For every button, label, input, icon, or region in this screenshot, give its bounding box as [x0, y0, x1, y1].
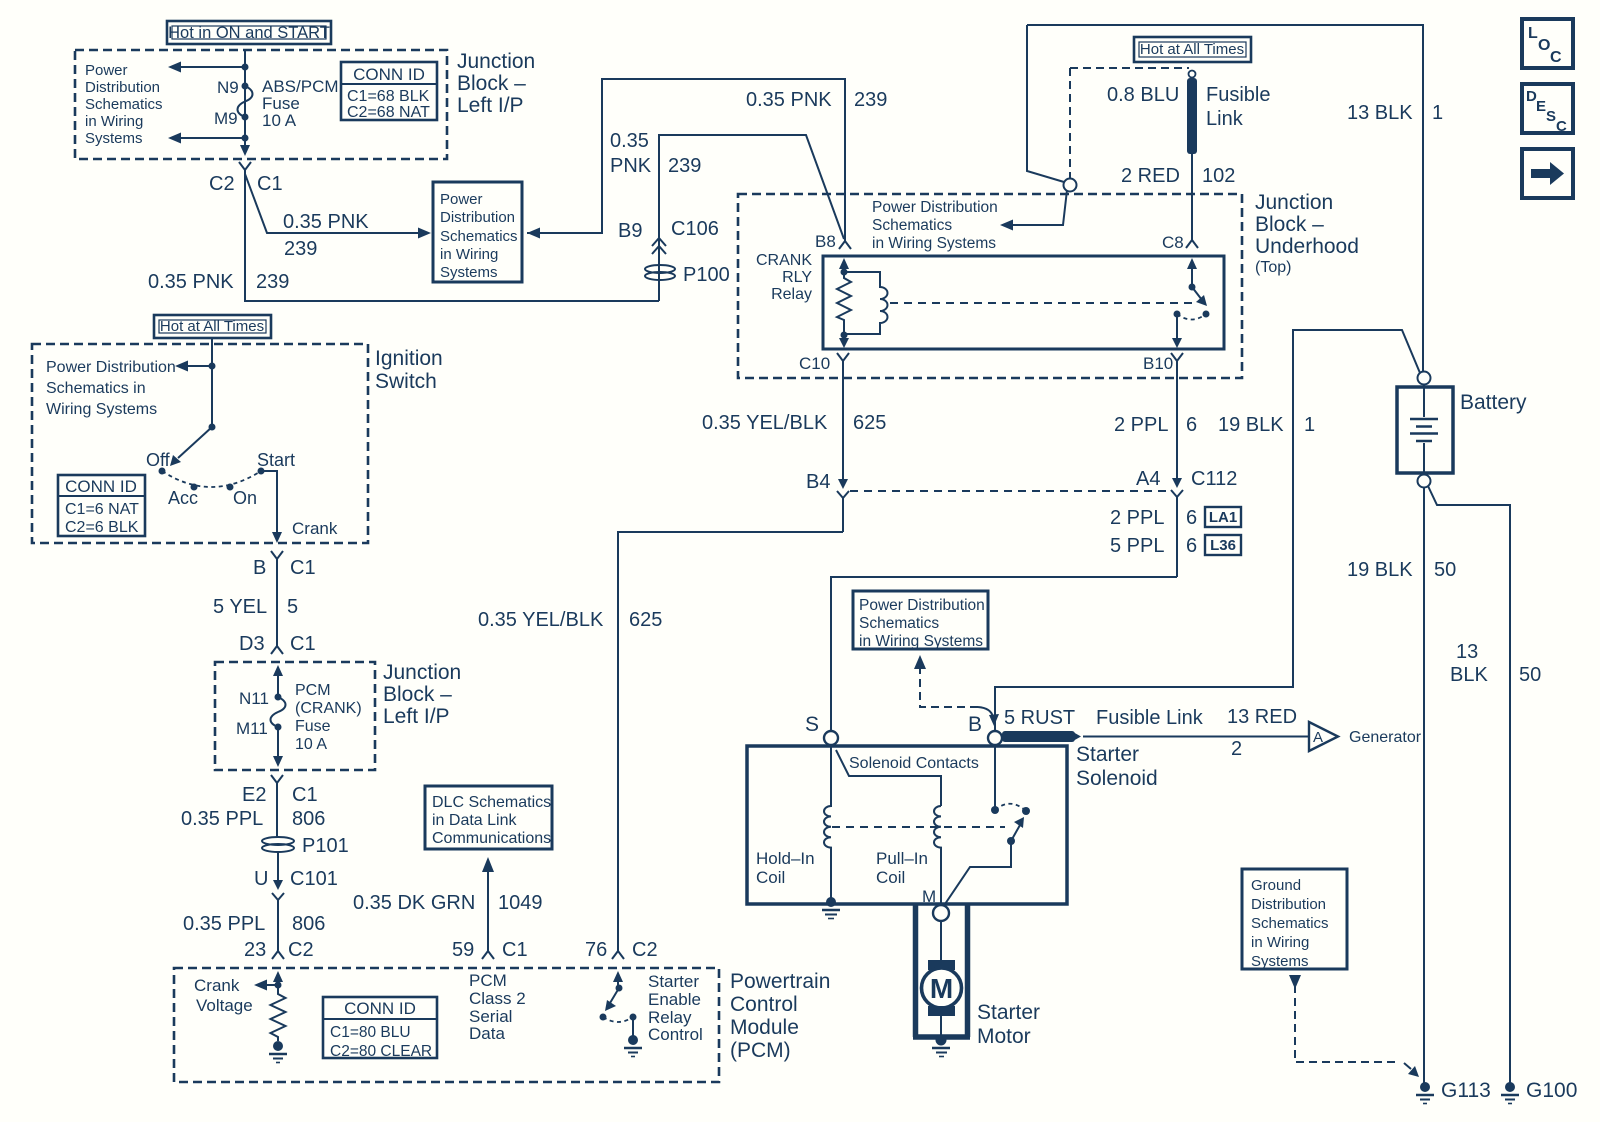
svg-text:Hot at All Times: Hot at All Times [160, 318, 264, 335]
label 0.35 PNK 239 (vertical run) [148, 271, 289, 293]
svg-text:Fusible Link: Fusible Link [1096, 707, 1204, 729]
reference text: Power Distribution Schematics in Wiring Systems (ignition) [46, 359, 176, 418]
label C10 [799, 354, 830, 373]
svg-text:C1: C1 [292, 784, 318, 806]
terminal circle B [988, 731, 1002, 745]
starter motor housing [913, 905, 970, 1037]
wire B up to battery [995, 330, 1420, 731]
label Off [146, 450, 171, 470]
CONN ID box (C1=6 NAT, C2=6 BLK) [58, 475, 145, 536]
svg-text:E2: E2 [242, 784, 266, 806]
svg-text:Link: Link [1206, 108, 1244, 130]
svg-text:0.8 BLU: 0.8 BLU [1107, 84, 1179, 106]
svg-text:Distribution: Distribution [440, 209, 515, 226]
svg-text:Relay: Relay [771, 286, 812, 303]
svg-text:13 BLK: 13 BLK [1347, 102, 1413, 124]
wire 2 RED 102 into C8 [1191, 154, 1193, 236]
label 2 PPL 6 LA1 [1110, 507, 1197, 529]
svg-text:Control: Control [648, 1025, 703, 1044]
svg-text:PCM: PCM [469, 971, 507, 990]
label A4 [1136, 468, 1160, 490]
svg-text:Left I/P: Left I/P [457, 94, 524, 117]
svg-text:C2=80 CLEAR: C2=80 CLEAR [330, 1043, 432, 1060]
svg-text:G100: G100 [1526, 1079, 1577, 1102]
connector E2/C1 Y symbol [271, 775, 283, 837]
node: solenoid blade pivot dot [1007, 837, 1015, 845]
terminal circle S [824, 731, 838, 745]
label G100 [1526, 1079, 1577, 1102]
svg-text:M: M [922, 887, 936, 906]
ground (hold-in coil) [822, 897, 840, 919]
connector B4 arrow + Y [837, 479, 849, 532]
label 0.35 YEL/BLK 625 (lower) [478, 609, 662, 631]
svg-text:13 RED: 13 RED [1227, 706, 1297, 728]
svg-text:Power Distribution: Power Distribution [46, 359, 176, 376]
svg-text:B8: B8 [815, 232, 836, 251]
wire up from P100 to diagonal into B8 [659, 135, 844, 301]
svg-text:M9: M9 [214, 109, 238, 128]
connector B9/C106 chevrons [652, 238, 666, 254]
svg-text:BLK: BLK [1450, 664, 1488, 686]
label: Junction Block - Underhood (Top) [1255, 191, 1359, 276]
svg-text:C2: C2 [288, 939, 314, 961]
wire arrow left lower [168, 133, 245, 144]
label C112 [1191, 468, 1237, 490]
svg-text:C1=80 BLU: C1=80 BLU [330, 1024, 411, 1041]
grommet P101 [262, 835, 349, 857]
label 19 BLK 1 (battery feed wire) [1218, 414, 1315, 436]
label 5 PPL 6 L36 [1110, 535, 1197, 557]
svg-text:D3: D3 [239, 633, 265, 655]
svg-text:19 BLK: 19 BLK [1347, 559, 1413, 581]
svg-text:Starter: Starter [648, 972, 699, 991]
svg-text:76: 76 [585, 939, 607, 961]
dashed travel arc (solenoid switch) [995, 804, 1026, 811]
svg-text:2 PPL: 2 PPL [1114, 414, 1168, 436]
label Battery [1460, 391, 1527, 414]
node N11 [239, 689, 282, 708]
arrow up inside PCM (starter enable) [613, 971, 623, 988]
ground (starter enable) [624, 1035, 642, 1057]
reference text: Power Distribution Schematics in Wiring Systems (JB left I/P) [85, 62, 163, 147]
node: ignition pivot dot [209, 424, 216, 431]
reference box: DLC Schematics in Data Link Communications [425, 786, 552, 849]
svg-text:Power Distribution: Power Distribution [859, 597, 985, 614]
wire B4 down-left to PCM 76/C2 [618, 532, 843, 943]
pull-in coil [934, 806, 941, 905]
label Pull-In Coil [876, 849, 928, 887]
node: relay contact dot right [1203, 311, 1210, 318]
svg-text:Powertrain: Powertrain [730, 970, 830, 993]
resistor (relay) [837, 272, 851, 333]
resistor (crank voltage) [271, 985, 286, 1041]
wire M terminal into motor [940, 921, 942, 962]
svg-text:C: C [1556, 118, 1567, 135]
connector A4 arrow + Y [1171, 478, 1183, 577]
label G113 [1441, 1079, 1491, 1102]
label: Junction Block - Left I/P (2) [383, 661, 461, 728]
svg-text:50: 50 [1519, 664, 1541, 686]
svg-text:Block –: Block – [383, 683, 452, 706]
label 0.35 PNK 239 (branch) [283, 211, 369, 260]
node: relay contact dot left [1174, 311, 1181, 318]
svg-text:Junction: Junction [383, 661, 461, 684]
svg-text:0.35 PNK: 0.35 PNK [148, 271, 234, 293]
svg-text:Power: Power [440, 191, 483, 208]
svg-text:1: 1 [1432, 102, 1443, 124]
svg-text:M: M [930, 973, 953, 1004]
svg-text:L36: L36 [1210, 537, 1236, 554]
svg-text:PNK: PNK [610, 155, 652, 177]
label B9 [618, 220, 642, 242]
ground (crank voltage) [269, 1041, 287, 1063]
svg-text:RLY: RLY [782, 269, 812, 286]
label M [922, 887, 936, 906]
icon DESC [1522, 84, 1573, 135]
svg-text:S: S [805, 713, 819, 736]
label 0.8 BLU [1107, 84, 1179, 106]
svg-text:C1=68 BLK: C1=68 BLK [347, 88, 430, 105]
wire: bus into fuse ABS/PCM [244, 50, 246, 141]
label Start [257, 450, 295, 470]
ignition blade arrow to Off [170, 427, 212, 466]
svg-text:239: 239 [854, 89, 887, 111]
svg-text:Junction: Junction [1255, 191, 1333, 214]
svg-text:0.35 PNK: 0.35 PNK [746, 89, 832, 111]
dashed actuation line (relay) [890, 302, 1194, 304]
svg-text:Ground: Ground [1251, 877, 1301, 894]
label S [805, 713, 819, 736]
svg-text:C10: C10 [799, 354, 830, 373]
label B10 [1143, 354, 1173, 373]
svg-text:in Wiring: in Wiring [1251, 934, 1309, 951]
wire A4 down to S terminal [831, 577, 1177, 731]
label C8 [1162, 233, 1184, 252]
svg-text:CONN ID: CONN ID [353, 65, 425, 84]
wire 13 RED 2 to generator [1083, 736, 1308, 738]
junction block underhood dashed box [738, 194, 1242, 378]
svg-text:A: A [1313, 729, 1323, 746]
label 0.35 PNK 239 (P100 run) [610, 130, 701, 177]
svg-text:Fuse: Fuse [295, 718, 331, 735]
label B4 [806, 471, 830, 493]
reference box: Power Distribution Schematics in Wiring Systems #1 [433, 182, 522, 282]
svg-text:Coil: Coil [876, 868, 905, 887]
svg-text:Communications: Communications [432, 830, 551, 847]
svg-text:6: 6 [1186, 414, 1197, 436]
svg-text:0.35 YEL/BLK: 0.35 YEL/BLK [478, 609, 604, 631]
reference box: Power Distribution Schematics in Wiring Systems #3 [853, 591, 988, 650]
label U C101 [254, 868, 338, 890]
svg-text:Hot at All Times: Hot at All Times [1140, 41, 1244, 58]
connector 23/C2 inverted-Y [272, 944, 284, 959]
battery cell plates [1410, 385, 1438, 474]
svg-text:1049: 1049 [498, 892, 543, 914]
svg-text:Off: Off [146, 450, 171, 470]
label B (ignition out) [253, 557, 266, 579]
svg-text:Data: Data [469, 1024, 505, 1043]
node: contact Off [159, 468, 166, 475]
svg-text:in Data Link: in Data Link [432, 812, 517, 829]
connector D3 inverted-Y [271, 646, 283, 654]
label On [233, 488, 257, 508]
svg-text:239: 239 [668, 155, 701, 177]
svg-text:C8: C8 [1162, 233, 1184, 252]
svg-text:Class 2: Class 2 [469, 989, 526, 1008]
icon LOC [1522, 19, 1573, 68]
label B [968, 713, 982, 736]
svg-text:P101: P101 [302, 835, 349, 857]
label box "Hot in ON and START" [167, 21, 331, 44]
ground G100 [1501, 1082, 1519, 1104]
label 0.35 DK GRN 1049 [353, 892, 543, 914]
node: crank voltage junction dot [275, 982, 282, 989]
label Fusible Link [1096, 707, 1204, 729]
label C1 [257, 173, 283, 195]
tag box LA1 [1205, 507, 1241, 527]
wire S to pull-in coil [836, 750, 941, 806]
label: Junction Block - Left I/P [457, 50, 535, 117]
svg-text:50: 50 [1434, 559, 1456, 581]
label Crank Voltage [194, 976, 253, 1015]
fuse ABS/PCM 10A [238, 77, 339, 130]
svg-text:Systems: Systems [85, 130, 143, 147]
connector 59/C1 inverted-Y [482, 944, 494, 959]
svg-text:(PCM): (PCM) [730, 1039, 791, 1062]
svg-text:E: E [1536, 98, 1546, 115]
svg-text:Solenoid Contacts: Solenoid Contacts [849, 755, 979, 772]
svg-text:Schematics: Schematics [1251, 915, 1329, 932]
svg-text:C2=68 NAT: C2=68 NAT [347, 104, 430, 121]
label 13 BLK 1 [1347, 102, 1443, 124]
svg-text:10 A: 10 A [295, 736, 327, 753]
label 5 RUST [1004, 707, 1075, 729]
svg-text:C112: C112 [1191, 468, 1237, 490]
inductor coil (relay) [844, 272, 888, 334]
node: solenoid contact dot left [991, 806, 999, 814]
battery box [1397, 387, 1453, 473]
svg-text:Battery: Battery [1460, 391, 1527, 414]
wire arrow up into DLC box [482, 857, 494, 944]
reference box: Ground Distribution Schematics in Wiring Systems [1242, 869, 1347, 970]
wire arrow left Crank Voltage [254, 980, 278, 991]
svg-text:5 RUST: 5 RUST [1004, 707, 1075, 729]
connector C10 Y symbol [837, 353, 849, 368]
label Solenoid Contacts [849, 755, 979, 772]
svg-text:Crank: Crank [194, 976, 240, 995]
svg-text:LA1: LA1 [1209, 509, 1237, 526]
node N9 [217, 78, 249, 97]
svg-text:C1=6 NAT: C1=6 NAT [65, 501, 139, 518]
PCM dashed box [174, 968, 719, 1082]
svg-text:19 BLK: 19 BLK [1218, 414, 1284, 436]
fuse PCM (CRANK) 10A [271, 682, 362, 753]
wire Start to Crank output [261, 471, 282, 543]
svg-text:625: 625 [629, 609, 662, 631]
svg-text:G113: G113 [1441, 1079, 1491, 1102]
wire 13 BLK 50 battery to G100 [1428, 486, 1510, 1083]
wire arrow down to E2 [273, 727, 283, 767]
svg-text:Switch: Switch [375, 370, 437, 393]
svg-text:5: 5 [287, 596, 298, 618]
svg-text:0.35: 0.35 [610, 130, 649, 152]
svg-text:CONN ID: CONN ID [344, 999, 416, 1018]
CONN ID box (C1=80 BLU, C2=80 CLEAR) [323, 997, 437, 1060]
label Crank [292, 519, 338, 538]
svg-text:59: 59 [452, 939, 474, 961]
svg-text:M11: M11 [236, 719, 268, 738]
wire C10 to B4 [842, 368, 844, 480]
svg-text:Junction: Junction [457, 50, 535, 73]
label 76 C2 [585, 939, 658, 961]
svg-text:806: 806 [292, 808, 325, 830]
terminal circle M [933, 905, 949, 921]
wire hot at all times into switch [211, 338, 213, 427]
svg-text:C2=6 BLK: C2=6 BLK [65, 519, 139, 536]
svg-text:CRANK: CRANK [756, 252, 812, 269]
CONN ID box (C1=68 BLK, C2=68 NAT) [341, 62, 437, 121]
starter solenoid box [747, 746, 1067, 904]
dashed arrow from B up to reference box [914, 655, 999, 726]
svg-text:2 PPL: 2 PPL [1110, 507, 1164, 529]
label box "Hot at All Times" (fusible link) [1134, 37, 1251, 62]
node: starter enable contact right [630, 1014, 637, 1021]
reference text: Power Distribution Schematics in Wiring Systems (underhood) [872, 199, 998, 252]
svg-text:Control: Control [730, 993, 798, 1016]
fusible link bar (starter solenoid B) [1002, 731, 1081, 742]
wire 0.35 PNK 239 branch to PDS box [245, 174, 431, 239]
node: starter enable pivot dot [616, 985, 623, 992]
svg-text:Generator: Generator [1349, 729, 1422, 746]
label C2 [209, 173, 235, 195]
svg-text:Power: Power [85, 62, 128, 79]
node: relay switch pivot dot [1189, 284, 1196, 291]
label: Powertrain Control Module (PCM) [730, 970, 830, 1062]
wire contact to ground (starter enable) [632, 1017, 634, 1037]
svg-text:N9: N9 [217, 78, 239, 97]
svg-text:C1: C1 [502, 939, 528, 961]
svg-text:0.35 PPL: 0.35 PPL [183, 913, 265, 935]
icon arrow button [1522, 149, 1573, 198]
svg-text:L: L [1528, 25, 1538, 42]
wire B down to contact [994, 745, 996, 808]
label 2 PPL 6 (B10 wire) [1114, 414, 1197, 436]
svg-text:Power Distribution: Power Distribution [872, 199, 998, 216]
svg-text:0.35 PPL: 0.35 PPL [181, 808, 263, 830]
svg-text:P100: P100 [683, 264, 730, 286]
svg-text:6: 6 [1186, 535, 1197, 557]
dashed actuation line (solenoid) [832, 826, 1005, 828]
node: relay coil bottom dot [841, 332, 848, 339]
svg-text:Left I/P: Left I/P [383, 705, 450, 728]
svg-text:Crank: Crank [292, 519, 338, 538]
node: ignition feed junction dot [209, 363, 216, 370]
label C1 (ignition out) [290, 557, 316, 579]
junction block left I/P dashed box [75, 50, 447, 159]
svg-text:2 RED: 2 RED [1121, 165, 1180, 187]
wire arrow into underhood reference text [1000, 190, 1067, 231]
label E2 C1 [242, 784, 318, 806]
starter motor M symbol [922, 960, 962, 1016]
label Hold-In Coil [756, 849, 815, 887]
wire top feed into B8 and PDS arrow [527, 79, 845, 239]
svg-text:B4: B4 [806, 471, 830, 493]
svg-text:0.35 PNK: 0.35 PNK [283, 211, 369, 233]
label 0.35 PPL 806 (lower) [183, 913, 325, 935]
svg-text:Schematics in: Schematics in [46, 380, 146, 397]
svg-text:On: On [233, 488, 257, 508]
label 0.35 PNK 239 (top feed) [746, 89, 887, 111]
node: junction dot lower [242, 135, 249, 142]
svg-text:Voltage: Voltage [196, 996, 253, 1015]
label C106 [671, 218, 719, 240]
connector C8 Y symbol [1186, 236, 1198, 248]
label B8 [815, 232, 836, 251]
wire B10 to A4 [1176, 368, 1178, 479]
generator triangle A [1309, 722, 1338, 751]
node: relay coil top dot [841, 269, 848, 276]
wire arrow down to C10 [839, 335, 849, 348]
svg-text:239: 239 [284, 238, 317, 260]
node: junction dot upper [242, 64, 249, 71]
svg-text:Systems: Systems [1251, 953, 1309, 970]
svg-text:C2: C2 [209, 173, 235, 195]
svg-text:Block –: Block – [457, 72, 526, 95]
svg-text:B9: B9 [618, 220, 642, 242]
label 0.35 YEL/BLK 625 (upper) [702, 412, 886, 434]
svg-text:B: B [968, 713, 982, 736]
svg-text:DLC Schematics: DLC Schematics [432, 794, 551, 811]
arrow up inside PCM (crank voltage input) [273, 971, 283, 985]
svg-text:Distribution: Distribution [1251, 896, 1326, 913]
svg-text:Distribution: Distribution [85, 79, 160, 96]
label 5 YEL 5 [213, 596, 298, 618]
label 13 RED 2 [1227, 706, 1297, 760]
label PCM Class 2 Serial Data [469, 971, 526, 1043]
svg-text:C2: C2 [632, 939, 658, 961]
ground (starter motor) [932, 1035, 950, 1057]
svg-text:C106: C106 [671, 218, 719, 240]
tag box L36 [1205, 535, 1241, 555]
svg-text:Acc: Acc [168, 488, 198, 508]
svg-text:C1: C1 [257, 173, 283, 195]
svg-text:10 A: 10 A [262, 111, 297, 130]
label 19 BLK 50 [1347, 559, 1456, 581]
dashed arrow ground reference to G113 [1289, 975, 1419, 1077]
svg-text:Start: Start [257, 450, 295, 470]
svg-text:Ignition: Ignition [375, 347, 443, 370]
label Generator [1349, 729, 1422, 746]
label Acc [168, 488, 198, 508]
wire arrow down to B10 [1172, 314, 1182, 348]
svg-text:1: 1 [1304, 414, 1315, 436]
dashed travel arc (relay switch) [1177, 314, 1206, 320]
wire 13 BLK 1 top run to battery [1027, 25, 1423, 372]
battery top terminal circle [1418, 372, 1431, 385]
wire arrow left upper [168, 62, 245, 73]
relay switch feed arrow up [1187, 258, 1197, 287]
starter enable blade arrow [605, 988, 619, 1011]
solenoid switch blade arrow [1011, 817, 1024, 841]
svg-text:Fusible: Fusible [1206, 84, 1270, 106]
svg-text:6: 6 [1186, 507, 1197, 529]
svg-text:Schematics: Schematics [440, 228, 518, 245]
wire arrow left to reference text [175, 361, 212, 372]
node M9 [214, 109, 249, 128]
svg-text:625: 625 [853, 412, 886, 434]
svg-text:Pull–In: Pull–In [876, 849, 928, 868]
node: contact On [227, 484, 234, 491]
